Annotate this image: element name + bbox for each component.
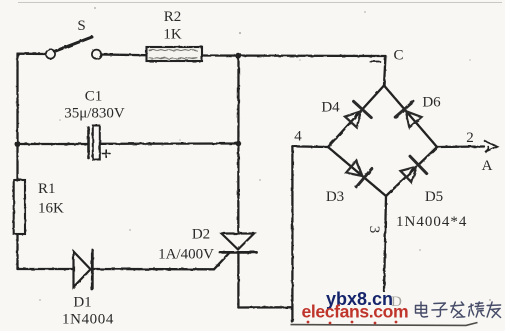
svg-text:1A/400V: 1A/400V — [158, 247, 214, 263]
wire D1 to diagonal — [94, 268, 215, 271]
watermark box bottom line — [291, 323, 478, 326]
diode D2 triangle — [222, 234, 255, 250]
wire D2 down — [237, 252, 239, 307]
svg-text:S: S — [77, 18, 85, 34]
junction dot top — [235, 53, 241, 59]
wire mid rail down — [237, 56, 239, 233]
svg-text:1N4004: 1N4004 — [62, 312, 114, 328]
wire diagonal to D2 — [214, 253, 230, 270]
svg-text:R1: R1 — [38, 181, 56, 197]
svg-text:A: A — [482, 158, 493, 174]
char shao — [469, 302, 485, 317]
resistor R2 body — [147, 47, 203, 61]
scan specks — [39, 7, 491, 301]
wire left rail — [16, 54, 18, 269]
char zi — [432, 303, 447, 317]
diode D3 — [344, 157, 372, 186]
switch S right contact — [92, 50, 101, 59]
diode D4 — [342, 101, 371, 130]
bridge arm L-B — [328, 147, 386, 196]
wire bottom-left — [18, 268, 74, 270]
diode D2 cathode bar — [220, 251, 257, 254]
minus mark near C — [370, 61, 380, 63]
svg-text:2: 2 — [466, 130, 474, 146]
char fa — [451, 302, 465, 318]
diode D1 triangle — [74, 252, 91, 288]
switch S arm — [55, 37, 92, 51]
wire capacitor row right — [100, 142, 238, 145]
svg-text:R2: R2 — [164, 9, 182, 25]
svg-text:1K: 1K — [163, 27, 182, 43]
junction dot cap-right — [236, 141, 242, 147]
wire bottom middle — [238, 306, 292, 309]
svg-text:1N4004*4: 1N4004*4 — [396, 214, 467, 230]
capacitor C1 right plate — [93, 126, 100, 160]
arrowhead terminal A — [485, 141, 498, 152]
diode D1 cathode bar — [91, 250, 94, 290]
C1 plus sign — [103, 150, 111, 157]
svg-text:35μ/830V: 35μ/830V — [64, 106, 125, 122]
resistor R1 body — [14, 180, 25, 234]
diode D6 — [395, 101, 424, 130]
char you — [487, 302, 501, 318]
switch S left contact — [46, 49, 55, 58]
svg-text:4: 4 — [294, 129, 302, 145]
wire node4 horizontal — [292, 145, 328, 148]
bridge arm T-L — [328, 86, 384, 148]
wire top-left horizontal — [18, 53, 46, 56]
svg-text:16K: 16K — [38, 201, 64, 217]
diode D5 — [398, 156, 427, 185]
svg-text:D4: D4 — [321, 100, 340, 116]
wire capacitor row left — [18, 143, 88, 145]
wire C down to bridge — [384, 56, 386, 86]
wire switch to R2 — [101, 53, 146, 56]
wire bridge right to arrow — [437, 145, 484, 148]
svg-text:D6: D6 — [422, 95, 441, 111]
watermark chinese 电子发烧友 — [416, 302, 501, 318]
svg-text:D2: D2 — [192, 227, 210, 243]
bridge arm T-R — [384, 86, 437, 148]
wire R2 to corner C — [202, 54, 386, 57]
red dots under watermark — [307, 321, 398, 325]
bridge diodes group — [342, 101, 427, 186]
svg-text:D5: D5 — [425, 189, 443, 205]
bridge arm B-R — [386, 147, 437, 196]
wire bridge bottom down — [384, 196, 386, 291]
faint scan line top — [18, 2, 502, 4]
svg-text:3: 3 — [366, 226, 382, 234]
svg-text:C: C — [393, 48, 403, 64]
junction dot cap-left — [15, 141, 21, 147]
svg-text:elecfans.com: elecfans.com — [302, 302, 409, 322]
char dian — [416, 302, 428, 317]
wire node4 vertical — [291, 146, 293, 322]
capacitor C1 left plate — [87, 128, 90, 159]
svg-text:C1: C1 — [85, 89, 103, 105]
svg-text:D1: D1 — [73, 295, 91, 311]
svg-text:D3: D3 — [326, 189, 344, 205]
